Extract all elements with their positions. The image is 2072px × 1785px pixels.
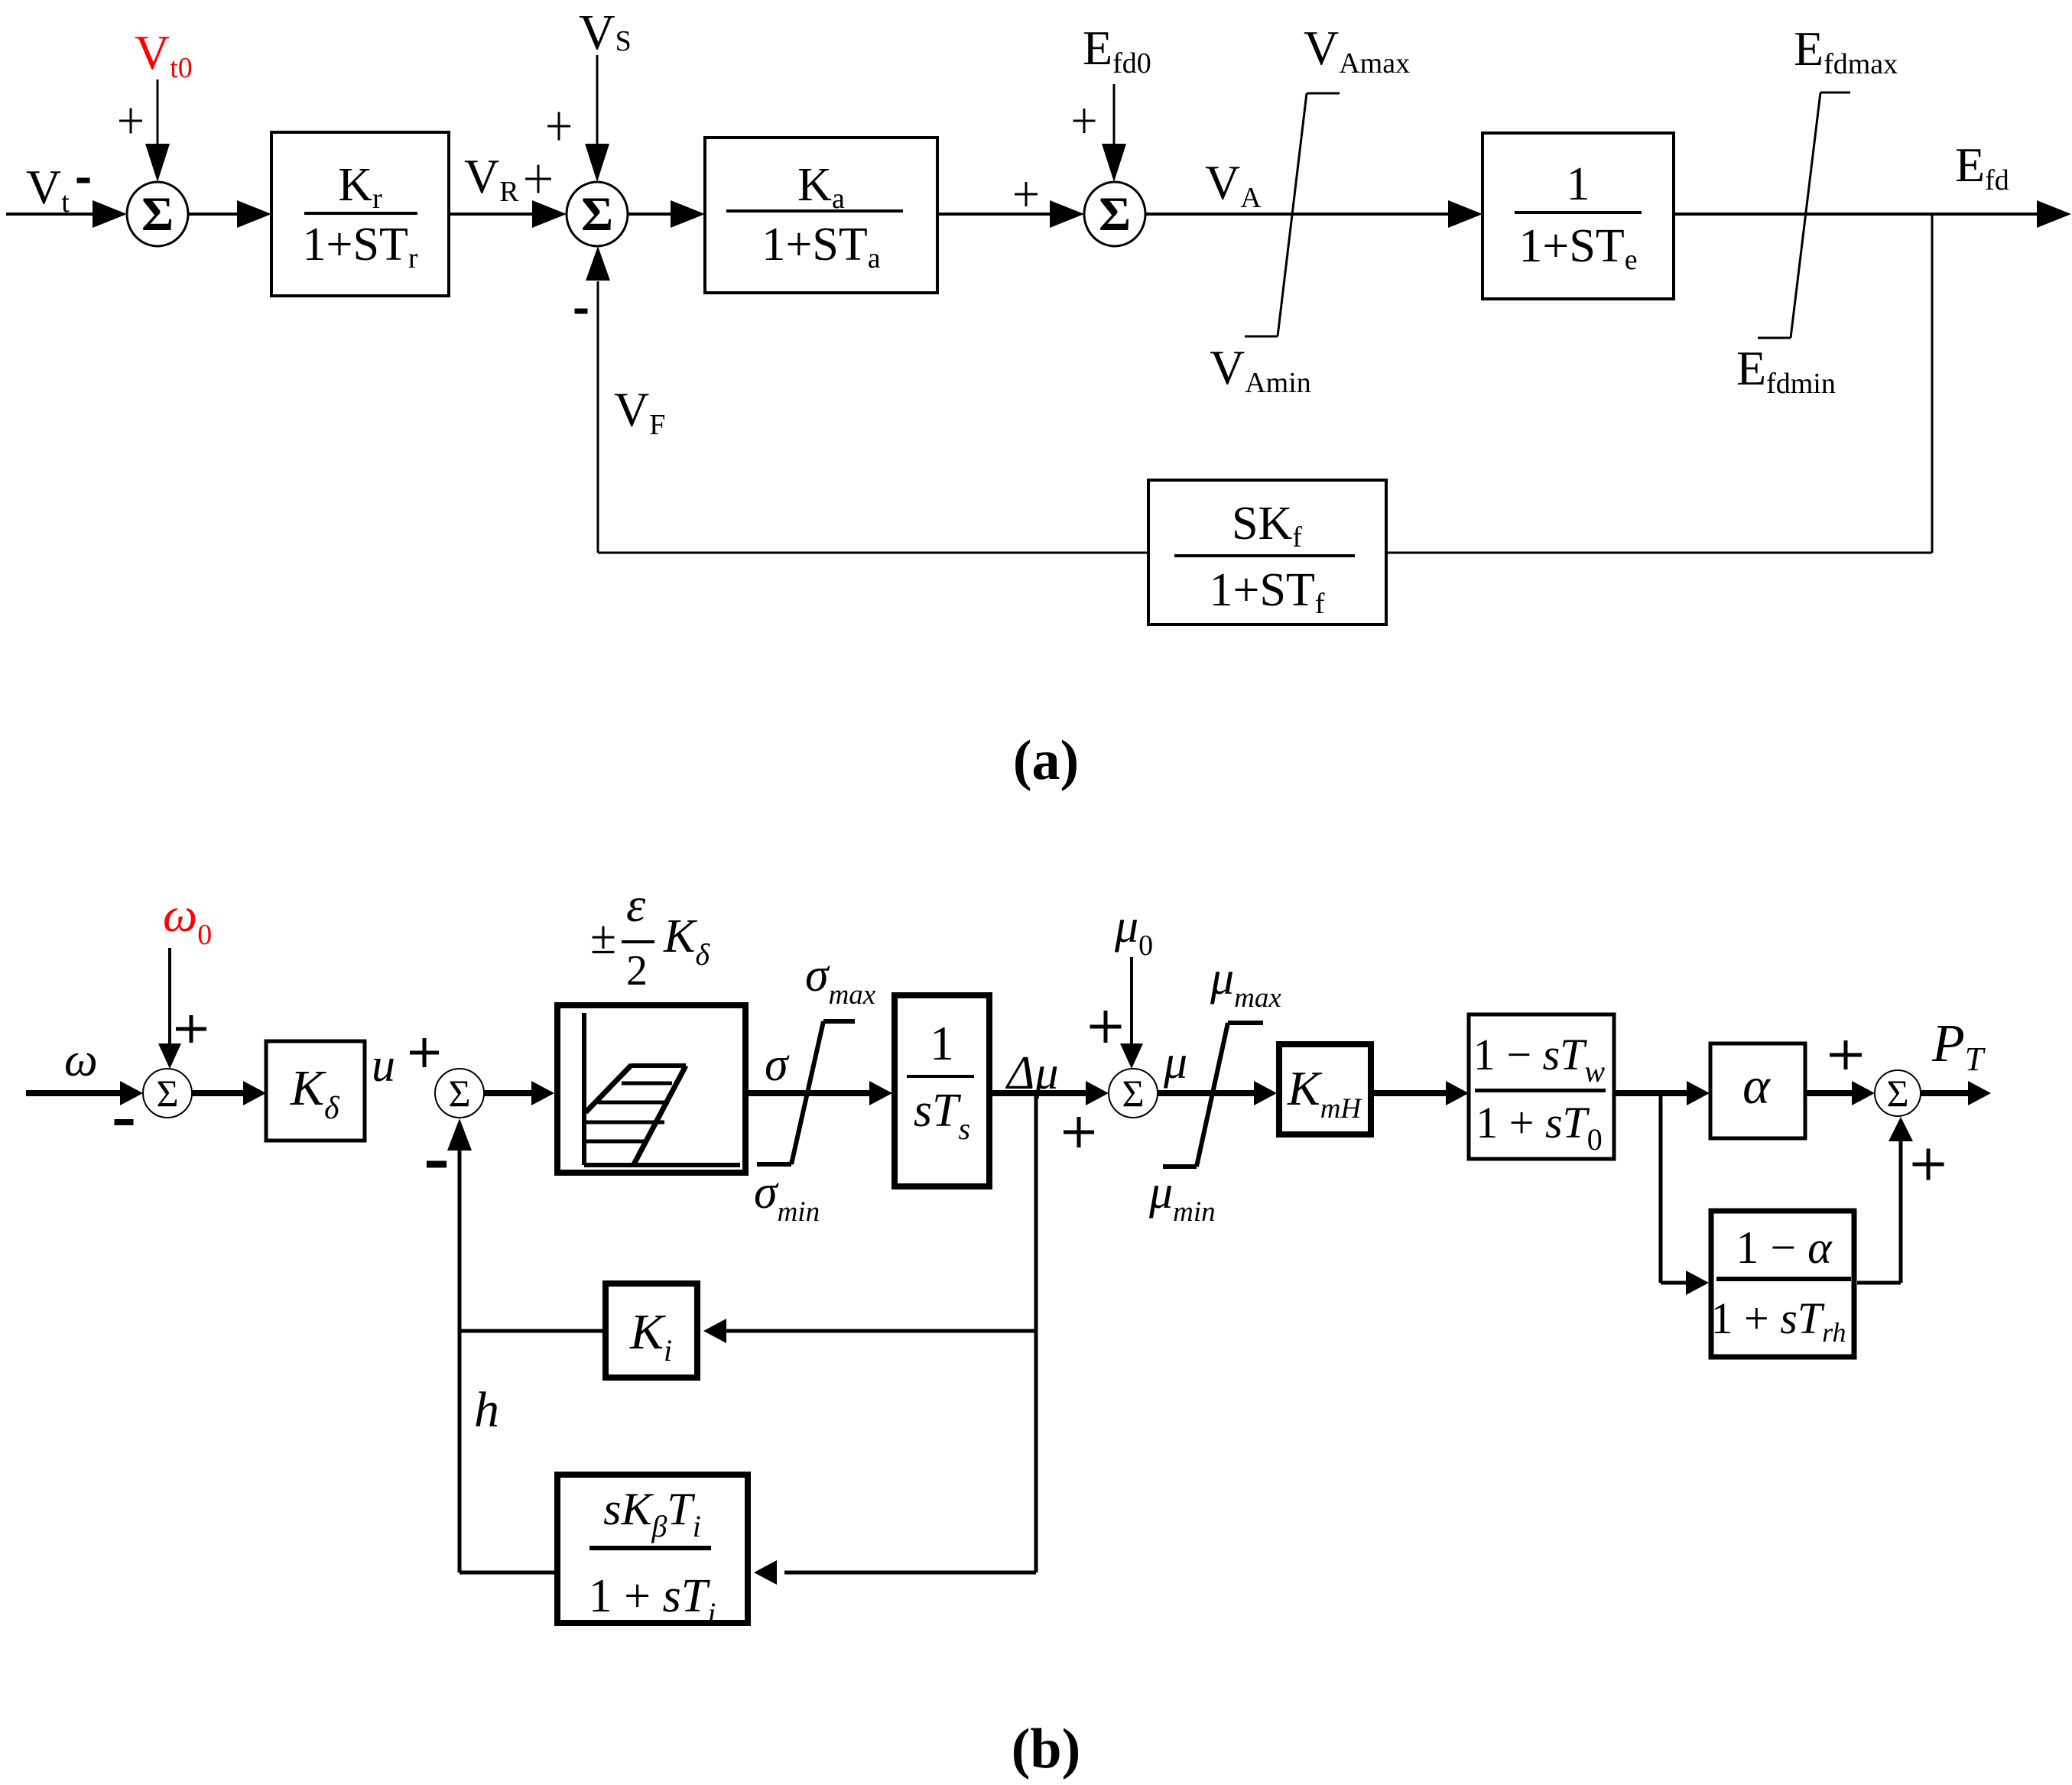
summing junction S2 <box>567 182 628 246</box>
block Ki <box>606 1284 697 1378</box>
plus sign at Sb1 top input <box>176 1027 206 1031</box>
summing junction Sb2 <box>435 1069 484 1118</box>
limiter symbol Efdmax/Efdmin <box>1820 92 1850 94</box>
svg-text:u: u <box>372 1040 395 1092</box>
wire: omega0 down into Sb1 <box>168 948 171 1049</box>
plus sign at S2 left input <box>525 178 551 180</box>
block alpha <box>1710 1043 1805 1138</box>
wire: VS down into S2 <box>596 55 599 144</box>
plus sign at Sb4 bottom input <box>1913 1163 1944 1167</box>
block Kdelta <box>266 1041 365 1141</box>
plus sign at Sb2 left input <box>410 1051 439 1055</box>
limiter symbol VAmax/VAmin <box>1307 92 1340 95</box>
block sKbTi/(1+sTi) <box>557 1475 748 1623</box>
limiter symbol sigma max/min <box>823 1019 855 1024</box>
block (1-sTw)/(1+sT0) <box>1469 1014 1614 1159</box>
svg-text:1+STr: 1+STr <box>303 219 418 274</box>
svg-text:Σ: Σ <box>1886 1072 1908 1115</box>
wire: KmH to water-turbine block <box>1373 1090 1447 1096</box>
dead-band parallelogram right slant <box>633 1066 686 1166</box>
svg-text:SKf: SKf <box>1232 498 1302 553</box>
svg-text:Σ: Σ <box>141 187 174 241</box>
wire: Vt0 down into S1 <box>157 80 159 144</box>
wire: dead-band to 1/sTs <box>749 1090 872 1096</box>
svg-text:2: 2 <box>626 947 648 995</box>
summing junction Sb4 <box>1875 1070 1921 1116</box>
svg-text:Σ: Σ <box>1099 187 1131 241</box>
wire: delta-mu branch down <box>1034 1093 1038 1572</box>
summing junction Sb1 <box>143 1069 192 1118</box>
wire: S2 to block Ka <box>628 213 671 216</box>
dead-band inner horizontal axis <box>584 1163 740 1167</box>
block 1/(1+STe) <box>1483 133 1674 299</box>
svg-text:±: ± <box>590 912 616 964</box>
wire: Efd0 down into S3 <box>1113 84 1116 144</box>
svg-text:1 − α: 1 − α <box>1736 1222 1833 1273</box>
svg-text:Σ: Σ <box>581 187 613 241</box>
svg-text:Σ: Σ <box>1122 1072 1144 1115</box>
wire: Kf output back to S2 bottom <box>598 552 1148 554</box>
dead-band inner vertical axis <box>582 1013 586 1165</box>
dead-band hatch line 2 <box>598 1101 669 1105</box>
svg-text:1: 1 <box>1567 158 1590 210</box>
plus sign at Sb4 left input <box>1830 1053 1862 1057</box>
minus sign at Sb1 bottom-left input <box>115 1119 134 1125</box>
minus sign at Sb2 bottom input <box>427 1161 447 1168</box>
svg-text:ω: ω <box>64 1034 98 1086</box>
wire: Ki output to left feedback line <box>460 1329 602 1333</box>
plus sign at S3 top input <box>1073 120 1096 122</box>
svg-text:μ: μ <box>1163 1037 1187 1089</box>
block Kr/(1+STr) <box>271 132 449 296</box>
plus sign at S1 top input <box>119 120 142 122</box>
wire: branch to sKbTi block <box>784 1571 1036 1575</box>
plus sign at S3 left input <box>1015 193 1038 196</box>
dead-band hatch line 3 <box>586 1121 664 1125</box>
wire: reheat block up into Sb4 <box>1857 1281 1901 1285</box>
wire: Sb4 to PT output <box>1921 1090 1970 1096</box>
wire: Sb1 to block Kdelta <box>192 1090 245 1096</box>
wire: Kr to S2 <box>449 213 534 216</box>
summing junction S1 <box>127 182 188 246</box>
block SKf/(1+STf) <box>1148 480 1386 625</box>
wire: branch down to reheat block <box>1659 1093 1663 1283</box>
wire: alpha to Sb4 <box>1807 1090 1854 1096</box>
minus sign at summer S1 left input <box>77 178 90 183</box>
plus sign at Sb3 left-bottom input <box>1064 1131 1094 1134</box>
dead-band (hysteresis) block <box>557 1005 745 1173</box>
svg-text:1+STf: 1+STf <box>1210 564 1325 620</box>
wire: S3 to block 1/(1+STe) <box>1145 213 1450 216</box>
wire: omega input line <box>26 1090 122 1096</box>
wire: branch down from Efd node <box>1931 214 1934 553</box>
svg-text:(a): (a) <box>1013 729 1079 792</box>
minus sign at S2 bottom input <box>575 309 588 314</box>
dead-band hatch line 4 <box>586 1140 648 1144</box>
wire: S1 to block Kr <box>188 213 239 216</box>
block 1/sTs <box>895 995 989 1186</box>
plus sign at Sb3 top input <box>1090 1025 1122 1029</box>
block Ka/(1+STa) <box>705 138 937 293</box>
svg-text:σ: σ <box>765 1039 790 1091</box>
wire: branch to Ki block <box>725 1329 1036 1333</box>
svg-text:1 + sTi: 1 + sTi <box>589 1570 716 1631</box>
block KmH <box>1279 1044 1371 1134</box>
wire: sKbTi output to left feedback line <box>460 1571 554 1575</box>
svg-text:α: α <box>1742 1056 1771 1115</box>
summing junction S3 <box>1084 182 1145 246</box>
svg-text:ε: ε <box>626 878 646 932</box>
wire: mu0 down into Sb3 <box>1130 957 1133 1049</box>
plus sign at S2 top input <box>547 125 570 128</box>
wire: left feedback line up into Sb2 bottom <box>458 1151 462 1572</box>
summing junction Sb3 <box>1109 1069 1158 1118</box>
wire: Ka to S3 <box>937 213 1051 216</box>
dead-band hatch line 1 <box>622 1082 672 1086</box>
wire: Sb2 to dead-band block <box>484 1090 534 1096</box>
wire: Sb3 to KmH <box>1158 1090 1255 1096</box>
svg-text:h: h <box>474 1382 499 1438</box>
dead-band parallelogram left slant <box>586 1065 632 1112</box>
dead-band parallelogram top edge <box>631 1063 686 1068</box>
wire: Vt input line <box>6 213 98 216</box>
block (1-alpha)/(1+sTrh) <box>1711 1211 1854 1357</box>
limiter symbol mu max/min <box>1228 1021 1263 1025</box>
svg-text:1: 1 <box>930 1016 954 1070</box>
svg-text:Σ: Σ <box>448 1072 470 1115</box>
wire: Te block to Efd output <box>1674 213 2038 216</box>
svg-text:(b): (b) <box>1012 1718 1080 1780</box>
wire: turbine block to alpha and branch <box>1614 1090 1688 1096</box>
svg-text:1+STa: 1+STa <box>762 219 880 274</box>
wire: 1/sTs to Sb3 <box>990 1090 1087 1096</box>
wire: feedback into block Kf <box>1386 552 1932 554</box>
svg-text:1+STe: 1+STe <box>1518 220 1637 276</box>
svg-text:Σ: Σ <box>156 1072 178 1115</box>
